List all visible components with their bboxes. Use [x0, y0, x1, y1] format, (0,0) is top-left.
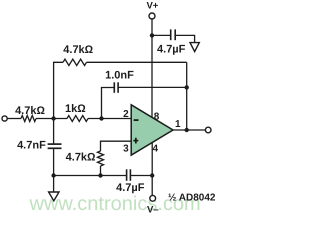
- op-amp minus sign: [134, 119, 139, 121]
- svg-text:4.7µF: 4.7µF: [157, 44, 186, 56]
- wire ground rail right of C3: [131, 175, 153, 177]
- svg-text:8: 8: [154, 112, 160, 123]
- wire C 1.0nF to right vertical: [118, 86, 187, 88]
- svg-text:4.7µF: 4.7µF: [116, 182, 145, 194]
- node output junction: [185, 128, 189, 132]
- wire vertical resistor to ground rail: [100, 166, 102, 176]
- wire right feedback vertical: [186, 62, 188, 130]
- node A junction: [51, 116, 55, 120]
- wire pin3 to vertical resistor: [101, 141, 133, 151]
- V- terminal: [150, 195, 156, 201]
- wire input to R1: [7, 118, 21, 120]
- svg-text:4.7kΩ: 4.7kΩ: [66, 152, 96, 164]
- svg-text:4: 4: [153, 144, 159, 155]
- wire V+ node to C 4.7uF: [152, 34, 170, 36]
- wire R2 to pin2: [88, 118, 132, 120]
- svg-text:4.7kΩ: 4.7kΩ: [15, 105, 45, 117]
- capacitor 4.7uF bottom: [127, 169, 131, 181]
- resistor 4.7k input: [21, 116, 36, 122]
- wire R1 to R2 (node A): [36, 118, 67, 120]
- node ground rail middle junction: [98, 173, 102, 177]
- capacitor 4.7nF: [48, 144, 62, 148]
- resistor 1k: [67, 116, 88, 122]
- wire ground rail left of C3: [54, 175, 127, 177]
- node feedback cap junction: [185, 85, 189, 89]
- wire feedback resistor to right vertical: [87, 61, 187, 63]
- op-amp plus sign: [133, 138, 138, 144]
- svg-text:1: 1: [175, 119, 181, 130]
- resistor 4.7k to ground (vertical): [98, 151, 104, 166]
- ground bottom left: [49, 192, 59, 201]
- wire V+ down to pin 8: [151, 19, 153, 117]
- svg-text:2: 2: [123, 109, 129, 120]
- svg-text:1.0nF: 1.0nF: [105, 70, 134, 82]
- resistor 4.7k feedback: [63, 59, 87, 65]
- output terminal: [205, 127, 211, 133]
- svg-text:4.7kΩ: 4.7kΩ: [63, 44, 93, 56]
- svg-text:V+: V+: [146, 0, 158, 11]
- svg-text:1kΩ: 1kΩ: [65, 103, 86, 115]
- wire pin 4 down to V-: [151, 143, 153, 196]
- V+ terminal: [149, 13, 155, 19]
- capacitor 1.0nF: [114, 82, 118, 93]
- node B junction (pin2): [99, 116, 103, 120]
- ground top right: [190, 43, 199, 52]
- wire node A up to feedback resistor: [54, 62, 63, 118]
- wire output: [173, 129, 205, 131]
- wire node A down to C 4.7nF: [53, 119, 55, 145]
- wire ground stub bottom-left: [53, 176, 55, 193]
- svg-text:½ AD8042: ½ AD8042: [168, 193, 216, 204]
- svg-text:4.7nF: 4.7nF: [17, 140, 46, 152]
- wire C 4.7uF to top ground: [175, 35, 194, 42]
- node ground rail right junction: [150, 173, 154, 177]
- wire node B up to C 1.0nF: [102, 88, 115, 119]
- wire C 4.7nF to ground rail: [53, 148, 55, 175]
- node V+ junction: [150, 33, 154, 37]
- op-amp U1 half AD8042: [131, 105, 173, 155]
- input terminal: [2, 116, 7, 121]
- svg-text:3: 3: [123, 143, 129, 154]
- node ground rail left junction: [51, 173, 55, 177]
- capacitor 4.7uF top: [171, 29, 176, 40]
- svg-text:V–: V–: [147, 204, 159, 215]
